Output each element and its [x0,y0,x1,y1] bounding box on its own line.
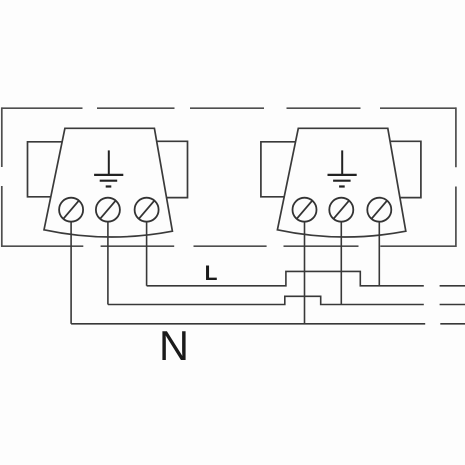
TB1 right mounting tab [157,141,188,197]
TB2 left mounting tab [261,142,296,197]
TB1 earth ground symbol [94,150,123,186]
TB2 screw terminal 2 [329,198,353,222]
wire L continuation dash [440,285,465,287]
terminal block TB2 (right) [261,128,421,237]
TB1 screw terminal 2 [96,198,120,222]
TB1 body (trapezoid with curved bottom) [44,128,172,237]
wire TB1-1 drop to N [70,222,72,324]
TB1 screw terminal 3 [135,198,159,222]
svg-text:N: N [159,322,189,369]
TB1 left mounting tab [28,142,63,197]
border bottom dashes [2,245,456,247]
TB1 screw terminal 1 [59,198,83,222]
wire N continuation dash [440,323,465,325]
TB2 screw terminal 1 [293,198,317,222]
wire L run with raised jog [147,271,424,285]
wire TB1-3 drop to L run [146,222,148,286]
wire TB2-2 drop to mid run [340,222,342,305]
TB2 right mounting tab [390,141,421,197]
TB2 earth ground symbol [328,150,357,186]
wire mid run with hop over TB2-1 drop [108,296,424,304]
svg-text:L: L [205,262,218,285]
border top dashes [2,107,456,109]
TB2 body (trapezoid with curved bottom) [277,128,405,237]
wire N run [71,323,425,325]
wiring [71,222,465,324]
dashed enclosure border (junction box outline) [2,107,456,247]
border left dashes [1,107,3,247]
wire TB2-3 drop to L run [378,222,380,286]
wire mid continuation dash [440,304,465,306]
terminal block TB1 (left) [28,128,188,237]
wire TB1-2 drop to mid run [107,222,109,305]
TB2 screw terminal 3 [367,198,391,222]
wire TB2-1 drop to N [304,222,306,324]
border right dashes [455,107,457,247]
